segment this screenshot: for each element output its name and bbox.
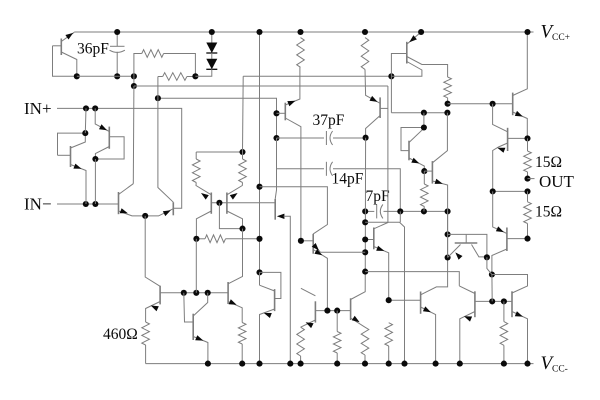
node Q3 tie (92, 156, 98, 162)
transistor Q1 (53, 32, 77, 76)
node R10 bottom (445, 101, 451, 107)
node bbr2 (501, 298, 507, 304)
wire R2-left column (158, 77, 173, 203)
wire tail down (145, 216, 160, 286)
node IN- b (92, 201, 98, 207)
node x3 (362, 249, 368, 255)
node rail- 7 (386, 361, 392, 367)
transistor Q24 (365, 228, 389, 301)
node Q1 emitter junction (74, 73, 80, 79)
node c0 (256, 29, 262, 35)
wire OUT stub (528, 178, 535, 180)
capacitor C2 37pF (277, 131, 366, 145)
node 15a top (524, 135, 530, 141)
wire D2 to R junction (195, 69, 211, 76)
svg-text:7pF: 7pF (366, 188, 391, 205)
node R6 left (193, 236, 199, 242)
resistor R13 15 (524, 191, 532, 238)
label OUT (539, 172, 575, 191)
node x4 (362, 269, 368, 275)
node q base (273, 110, 279, 116)
node C1 top (114, 29, 120, 35)
svg-text:460Ω: 460Ω (103, 326, 138, 343)
wire left column 447 (447, 211, 449, 257)
label 14pF (332, 171, 364, 188)
wire Q1 base loop (53, 46, 77, 77)
wire c3 down (259, 272, 261, 285)
resistor R11 (421, 171, 429, 211)
transistor Q19 (493, 104, 528, 192)
node rail- 12 (524, 361, 530, 367)
node c4 c (421, 208, 427, 214)
wire Vcc- rail (146, 363, 534, 365)
label 15b (535, 204, 562, 221)
node rail- 11 (501, 361, 507, 367)
node IN+ b (92, 105, 98, 111)
diode D2 (206, 53, 217, 69)
wire col196 (195, 239, 197, 293)
wire Vcc+ rail (74, 31, 533, 33)
node tail junction (142, 213, 148, 219)
transistor Q28 (351, 298, 365, 327)
node Q16 tie (421, 124, 427, 130)
transistor Q10 (228, 282, 242, 323)
node bus corner (131, 73, 137, 79)
node base mid (216, 200, 222, 206)
resistor R5 (239, 152, 247, 183)
node drive (490, 101, 496, 107)
node R1 R2 junction (192, 73, 198, 79)
node rail- 2 (256, 361, 262, 367)
svg-text:IN+: IN+ (24, 99, 52, 118)
transistor Q25 (260, 187, 366, 311)
svg-text:37pF: 37pF (313, 112, 345, 129)
node Q25 base (298, 238, 304, 244)
transistor Q14 (365, 69, 388, 137)
transistor Q27 (301, 288, 316, 328)
node Q2 tie (82, 130, 88, 136)
node x1 (362, 219, 368, 225)
svg-text:CC+: CC+ (552, 33, 570, 43)
node cap node (273, 135, 279, 141)
transistor Q13 (277, 67, 301, 241)
node Q15 emitter (418, 29, 424, 35)
wire y221 stub (399, 211, 401, 222)
svg-text:15Ω: 15Ω (535, 154, 562, 171)
transistor Q4 (119, 184, 146, 216)
node bus y76 dot (388, 73, 394, 79)
wire q20coll down (491, 275, 493, 302)
svg-text:15Ω: 15Ω (535, 204, 562, 221)
node Q20 base (524, 236, 530, 242)
svg-text:CC-: CC- (552, 364, 568, 374)
transistor Q8 (196, 183, 211, 239)
capacitor C4 7pF (365, 204, 447, 218)
transistor Q3 (95, 108, 124, 159)
resistor R17 (361, 327, 369, 363)
resistor R3 460 (142, 322, 150, 364)
wire col242 down (228, 229, 242, 284)
node rail- 0 (205, 361, 211, 367)
node rail- 3 (287, 361, 293, 367)
node bbr1 (489, 298, 495, 304)
label 15a (535, 154, 562, 171)
label 37pF (313, 112, 345, 129)
transistor Q11 (260, 285, 275, 363)
node bm1 (324, 308, 330, 314)
wire out lower tie (492, 275, 528, 294)
node rail- 10 (457, 361, 463, 367)
node C1 bottom (114, 73, 120, 79)
wire Q3 down (94, 159, 96, 204)
resistor R9 (361, 38, 369, 70)
transistor Q20 (492, 191, 528, 274)
transistor Q16 (401, 113, 424, 171)
wire bus2 y98 (158, 98, 277, 113)
node tl1 (445, 231, 451, 237)
wire Q2 base loop (58, 133, 86, 155)
node Q26 base (386, 297, 392, 303)
node rail- 8 (401, 361, 407, 367)
wire c4d column (421, 211, 448, 294)
transistor Q9 (227, 183, 243, 229)
capacitor C3 14pF (277, 138, 401, 211)
node R9 top (362, 29, 368, 35)
node D1 top (209, 29, 215, 35)
node b1 (181, 290, 187, 296)
node OUT (524, 176, 530, 182)
wire x365 column (351, 138, 366, 300)
wire bias bus y112 (391, 112, 447, 114)
node ot2 (524, 188, 530, 194)
node Q16 em (421, 168, 427, 174)
node Q20 coll (489, 271, 495, 277)
wire col277 (275, 113, 276, 199)
transistor Q21 (448, 234, 487, 259)
transistor Q26 (389, 292, 436, 364)
node IN- a (83, 201, 89, 207)
diode D1 (206, 32, 217, 53)
svg-text:IN−: IN− (24, 195, 52, 214)
node b2 (193, 290, 199, 296)
node c4 a (362, 208, 368, 214)
node bus2 start (155, 95, 161, 101)
transistor Q18 (513, 32, 528, 138)
wire base bus Q8Q9 (211, 202, 275, 204)
transistor Q22 (459, 286, 475, 364)
node x2 (362, 236, 368, 242)
wire IN+ line (57, 108, 182, 208)
node Vcc+ end (524, 29, 530, 35)
transistor Q5 (145, 202, 173, 216)
node bb2 (444, 110, 450, 116)
node rail- 9 (433, 361, 439, 367)
resistor R1 (134, 50, 196, 77)
wire col391 down (390, 76, 392, 112)
transistor Q23 (512, 291, 528, 363)
wire bus1 y86 (134, 85, 388, 87)
wire emitter bus (77, 75, 134, 77)
svg-text:36pF: 36pF (77, 41, 109, 58)
wire IN- line (57, 203, 119, 205)
resistor R4 (192, 152, 200, 183)
node tl2 (445, 254, 451, 260)
resistor R7 (238, 323, 246, 364)
label 36pF (77, 41, 109, 58)
resistor R18 (333, 311, 341, 364)
wire col243 down (242, 76, 245, 152)
node Q9 coll (239, 226, 245, 232)
label Vcc- (541, 353, 568, 374)
node Q21 tie (484, 254, 490, 260)
wire Q6 base bus (160, 292, 228, 294)
transistor Q6 (146, 286, 161, 322)
node c4 b (397, 208, 403, 214)
node c1 (256, 184, 262, 190)
node C2 right (363, 135, 369, 141)
label Vcc+ (541, 22, 571, 43)
label IN+ (24, 99, 52, 118)
label 7pF (366, 188, 391, 205)
node bus1 start (131, 83, 137, 89)
label IN- (24, 195, 52, 214)
node mirror top (239, 149, 245, 155)
node rail- 6 (362, 361, 368, 367)
label 460 (103, 326, 138, 343)
node rail- 4 (298, 361, 304, 367)
resistor R8 (297, 38, 305, 68)
wire bus y76 (243, 75, 391, 77)
wire bm bus (315, 310, 350, 312)
node rail- 5 (334, 361, 340, 367)
resistor R12 15 (524, 138, 532, 178)
resistor R14 (500, 301, 508, 363)
wire Q11 base loop (260, 272, 281, 298)
resistor R6 (196, 235, 259, 243)
node b3 (205, 290, 211, 296)
node IN+ a (83, 105, 89, 111)
wire drive bus (448, 103, 513, 105)
wire y221 wire (365, 222, 404, 363)
node bb1 (421, 110, 427, 116)
node c2 (256, 236, 262, 242)
node bm2 (334, 308, 340, 314)
wire mirror top (196, 151, 242, 153)
node R8 top (297, 29, 303, 35)
capacitor C1 36pF (110, 32, 125, 76)
wire base tie (219, 203, 242, 229)
transistor Q15 (391, 32, 447, 77)
wire down to bus1 (133, 76, 135, 86)
node rail- 1 (239, 361, 245, 367)
wire base bus bottom (475, 300, 512, 302)
svg-text:14pF: 14pF (332, 171, 364, 188)
transistor Q7 (184, 293, 208, 364)
node c4 d (445, 208, 451, 214)
resistor R16 (297, 327, 305, 363)
wire bus1 column (374, 86, 388, 229)
resistor R15 (385, 323, 393, 364)
wire out tie (493, 190, 528, 192)
node c3 (256, 269, 262, 275)
transistor Q12 (275, 199, 290, 364)
wire Q4 collector column (132, 86, 135, 184)
wire Q2 top (84, 108, 87, 133)
resistor R2 (158, 73, 196, 81)
wire Q21 tie down (487, 257, 492, 274)
node ot1 (490, 188, 496, 194)
svg-text:OUT: OUT (539, 172, 575, 191)
resistor R10 (444, 77, 452, 104)
wire center column (259, 32, 261, 272)
transistor Q2 (58, 133, 87, 204)
wire y271 wire (365, 272, 459, 286)
transistor Q17 (424, 113, 447, 212)
